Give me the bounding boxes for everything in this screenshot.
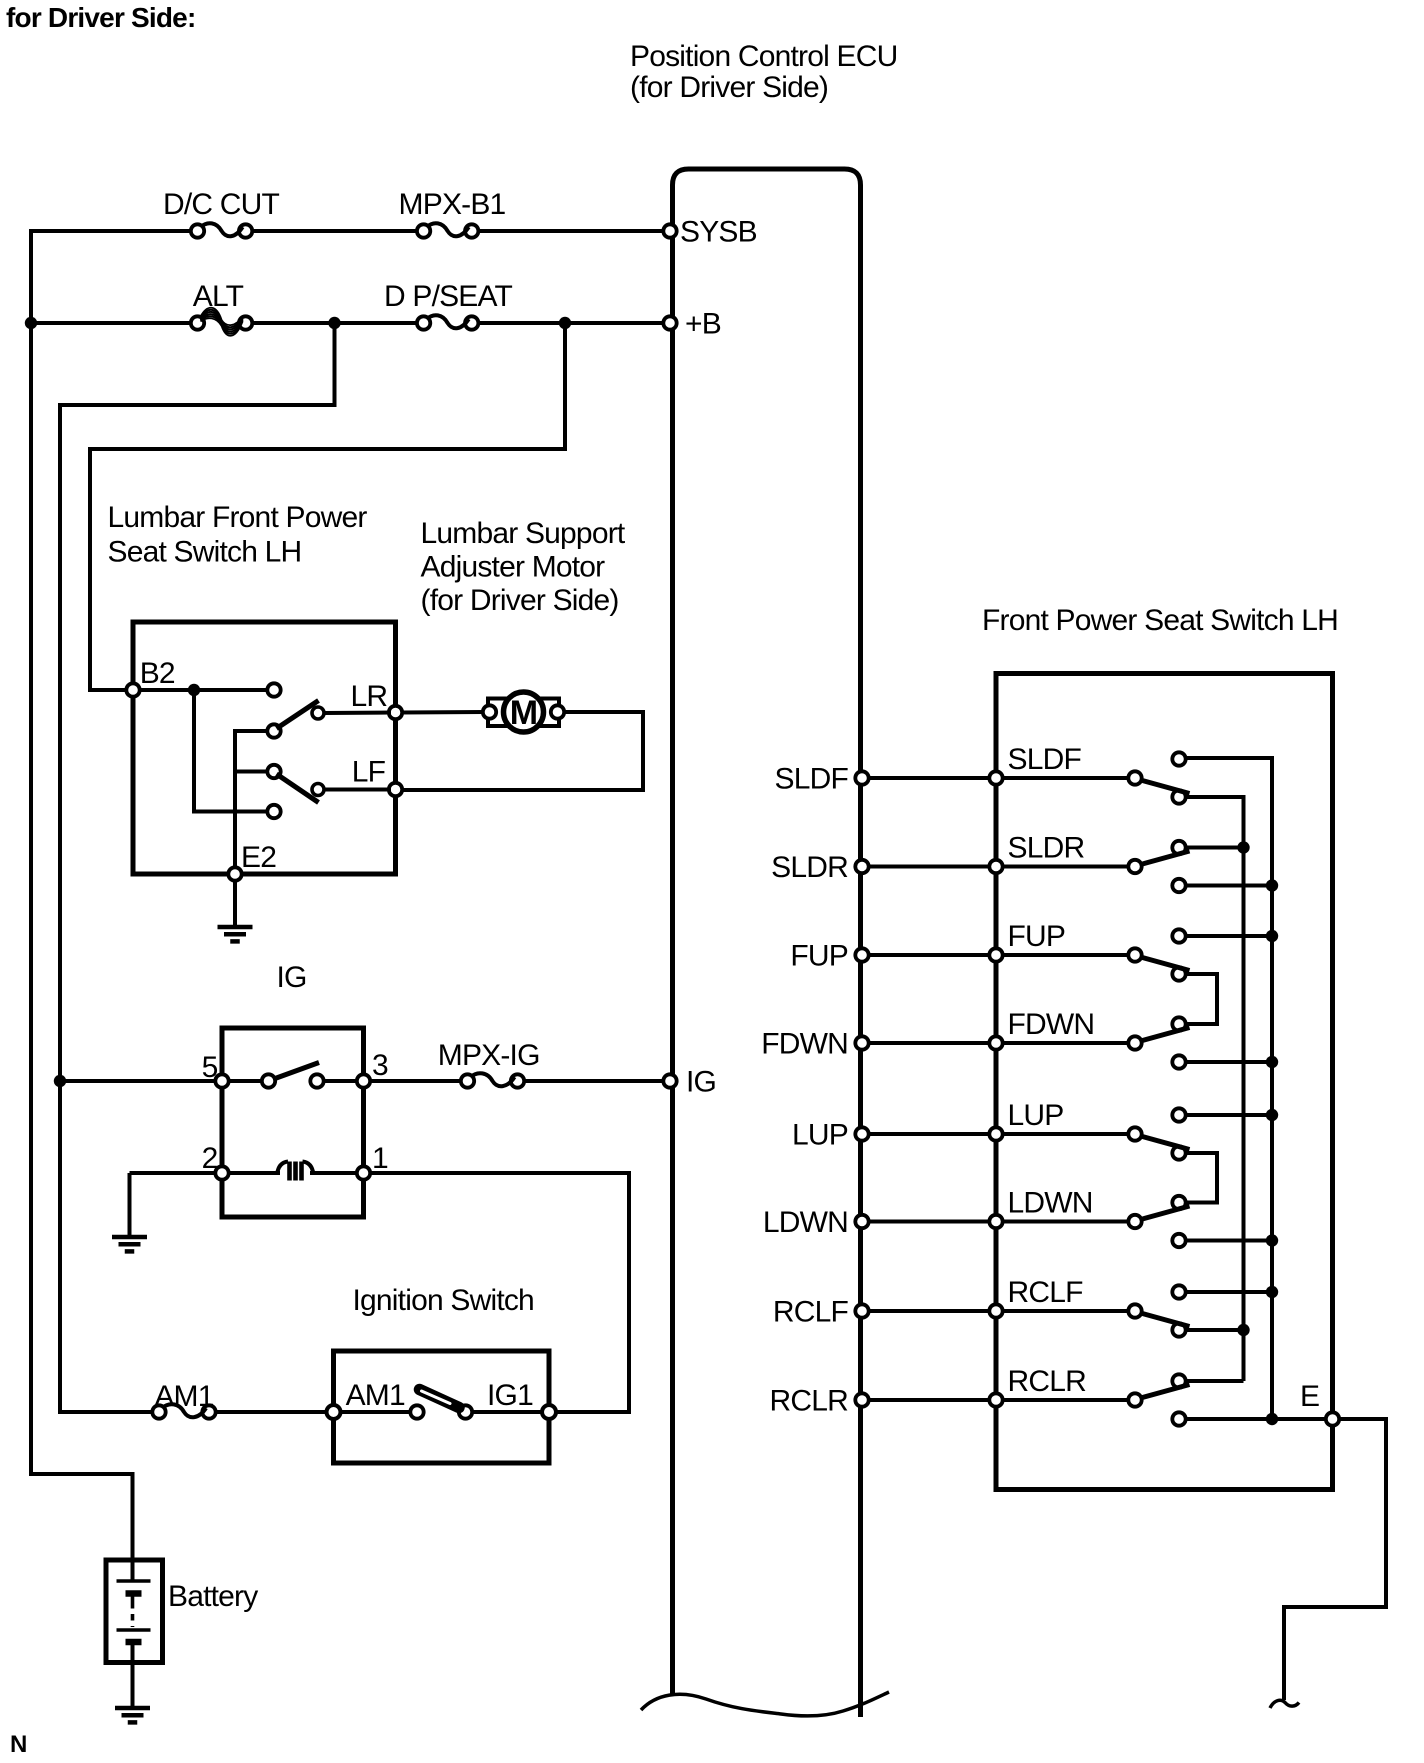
svg-text:LDWN: LDWN: [1008, 1187, 1093, 1220]
svg-text:E: E: [1300, 1380, 1319, 1413]
svg-text:Seat Switch LH: Seat Switch LH: [108, 536, 302, 569]
svg-text:Lumbar Support: Lumbar Support: [421, 517, 626, 550]
svg-text:SLDR: SLDR: [771, 851, 848, 884]
svg-text:(for Driver Side): (for Driver Side): [421, 584, 619, 617]
svg-text:Lumbar Front Power: Lumbar Front Power: [108, 501, 368, 534]
svg-text:(for Driver Side): (for Driver Side): [630, 71, 828, 104]
svg-text:FUP: FUP: [1008, 920, 1066, 953]
svg-text:2: 2: [202, 1142, 218, 1175]
svg-text:Adjuster Motor: Adjuster Motor: [421, 551, 606, 584]
svg-text:FUP: FUP: [790, 940, 848, 973]
svg-text:LR: LR: [351, 680, 388, 713]
svg-text:N: N: [10, 1731, 27, 1758]
svg-text:SYSB: SYSB: [680, 216, 757, 249]
svg-text:LDWN: LDWN: [763, 1206, 848, 1239]
svg-text:AM1: AM1: [154, 1380, 213, 1413]
svg-text:Position Control ECU: Position Control ECU: [630, 40, 897, 73]
svg-text:B2: B2: [140, 657, 175, 690]
svg-text:1: 1: [372, 1142, 388, 1175]
svg-text:E2: E2: [241, 841, 276, 874]
svg-text:RCLF: RCLF: [773, 1296, 849, 1329]
svg-text:M: M: [510, 694, 538, 732]
svg-text:FDWN: FDWN: [1008, 1008, 1095, 1041]
svg-text:3: 3: [372, 1049, 388, 1082]
svg-text:SLDF: SLDF: [1008, 743, 1082, 776]
svg-text:AM1: AM1: [346, 1379, 405, 1412]
svg-text:RCLR: RCLR: [770, 1385, 849, 1418]
svg-text:Front Power Seat Switch LH: Front Power Seat Switch LH: [982, 604, 1338, 637]
svg-text:RCLR: RCLR: [1008, 1365, 1087, 1398]
svg-text:IG1: IG1: [487, 1379, 533, 1412]
svg-text:D P/SEAT: D P/SEAT: [384, 280, 513, 313]
svg-text:LUP: LUP: [1008, 1099, 1064, 1132]
svg-text:LUP: LUP: [792, 1119, 848, 1152]
svg-text:+B: +B: [685, 308, 721, 341]
svg-text:FDWN: FDWN: [761, 1028, 848, 1061]
svg-text:SLDF: SLDF: [775, 763, 849, 796]
svg-text:SLDR: SLDR: [1008, 832, 1085, 865]
svg-text:D/C CUT: D/C CUT: [163, 188, 280, 221]
svg-text:5: 5: [202, 1051, 218, 1084]
svg-text:ALT: ALT: [193, 280, 244, 313]
svg-text:for Driver Side:: for Driver Side:: [6, 2, 195, 33]
svg-text:IG: IG: [686, 1066, 716, 1099]
svg-text:Ignition Switch: Ignition Switch: [353, 1284, 534, 1317]
svg-text:MPX-IG: MPX-IG: [438, 1039, 540, 1072]
svg-text:RCLF: RCLF: [1008, 1276, 1084, 1309]
svg-text:LF: LF: [352, 756, 386, 789]
svg-text:Battery: Battery: [168, 1580, 258, 1613]
svg-text:MPX-B1: MPX-B1: [399, 188, 506, 221]
svg-text:IG: IG: [277, 961, 307, 994]
